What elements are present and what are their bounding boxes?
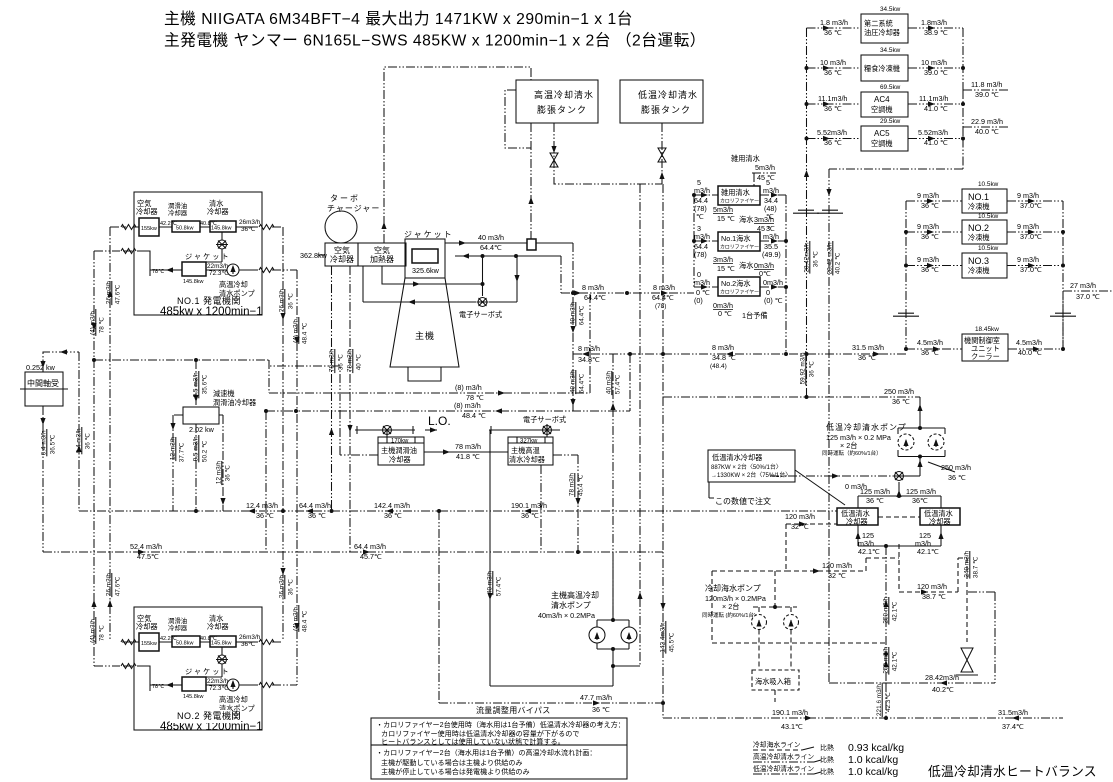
svg-text:m3/h: m3/h — [694, 278, 710, 287]
svg-text:32 ℃: 32 ℃ — [791, 522, 809, 531]
svg-text:15 ℃: 15 ℃ — [717, 214, 735, 223]
svg-text:31.5 m3/h: 31.5 m3/h — [852, 343, 884, 352]
svg-text:主機が駆動している場合は主機より供給のみ: 主機が駆動している場合は主機より供給のみ — [381, 758, 523, 767]
svg-text:250 m3/h: 250 m3/h — [941, 463, 971, 472]
svg-text:29.5kw: 29.5kw — [880, 118, 901, 125]
svg-text:中間軸受: 中間軸受 — [27, 378, 59, 388]
svg-text:清水ポンプ: 清水ポンプ — [551, 600, 591, 610]
svg-text:325.6kw: 325.6kw — [412, 266, 440, 275]
SW 240 riser — [958, 558, 967, 642]
bearing drain — [42, 406, 44, 552]
svg-text:NO.1: NO.1 — [968, 192, 989, 202]
left riser x110 — [110, 227, 120, 641]
svg-text:36 ℃: 36 ℃ — [288, 293, 295, 309]
svg-text:0m3/h: 0m3/h — [763, 278, 783, 287]
svg-text:250 m3/h: 250 m3/h — [884, 387, 914, 396]
SW overboard strainer — [956, 648, 978, 675]
HT tank drain line — [554, 123, 662, 184]
svg-text:11.8 m3/h: 11.8 m3/h — [971, 80, 1002, 89]
svg-text:64.4℃: 64.4℃ — [652, 293, 674, 302]
svg-text:冷却器: 冷却器 — [846, 517, 868, 526]
svg-text:39.0 ℃: 39.0 ℃ — [924, 68, 948, 77]
svg-text:36 ℃: 36 ℃ — [813, 251, 820, 267]
svg-text:NO.3: NO.3 — [968, 256, 989, 266]
svg-text:36 ℃: 36 ℃ — [921, 348, 939, 357]
svg-text:m3/h: m3/h — [763, 232, 779, 241]
makeup riser x640 — [639, 184, 641, 666]
svg-text:クーラー: クーラー — [971, 352, 1000, 361]
svg-text:45.4 ℃: 45.4 ℃ — [578, 475, 585, 496]
svg-text:海水: 海水 — [739, 215, 753, 224]
svg-text:カロリファイヤー使用時は低温清水冷却器の容量が下がるので: カロリファイヤー使用時は低温清水冷却器の容量が下がるので — [381, 729, 579, 738]
calorifier out stubs — [760, 195, 786, 287]
misc FW calorifier box — [718, 186, 760, 205]
svg-text:190.1 m3/h: 190.1 m3/h — [511, 501, 547, 510]
svg-text:36 ℃: 36 ℃ — [225, 465, 232, 481]
HT cooler bottom drain — [540, 465, 542, 552]
air heater box — [358, 243, 406, 266]
svg-text:潤滑油冷却器: 潤滑油冷却器 — [213, 398, 256, 407]
svg-text:0.93 kcal/kg: 0.93 kcal/kg — [848, 742, 904, 754]
generator engine NO.1 — [121, 192, 274, 318]
svg-text:膨張タンク: 膨張タンク — [641, 104, 691, 115]
LT cooler box B — [920, 508, 960, 525]
svg-text:4.5m3/h: 4.5m3/h — [1016, 338, 1042, 347]
svg-text:38.9 ℃: 38.9 ℃ — [924, 28, 948, 37]
refrigerator feed riser — [905, 201, 907, 349]
crossing ticks misc — [793, 210, 819, 213]
svg-text:8 m3/h: 8 m3/h — [653, 283, 675, 292]
crossing ticks refrigerant — [893, 313, 919, 316]
svg-text:12.4 m3/h: 12.4 m3/h — [246, 501, 278, 510]
svg-text:38.7 ℃: 38.7 ℃ — [973, 557, 980, 578]
HT tank feed line up — [530, 123, 532, 243]
jacket return line — [455, 255, 561, 257]
svg-text:170kw: 170kw — [391, 439, 409, 445]
svg-text:L.O.: L.O. — [428, 414, 451, 428]
svg-text:電子サーボ式: 電子サーボ式 — [459, 310, 502, 319]
NO1 right risers — [272, 227, 283, 642]
svg-text:9 m3/h: 9 m3/h — [1017, 255, 1039, 264]
svg-text:電子サーボ式: 電子サーボ式 — [523, 415, 566, 424]
svg-text:41.0 ℃: 41.0 ℃ — [924, 104, 948, 113]
riser 142.4 — [662, 397, 664, 703]
svg-text:m3/h: m3/h — [763, 186, 779, 195]
svg-text:64.4 m3/h: 64.4 m3/h — [299, 501, 331, 510]
svg-text:5m3/h: 5m3/h — [713, 205, 733, 214]
bearing feed riser — [78, 352, 80, 511]
svg-text:1.0 kcal/kg: 1.0 kcal/kg — [848, 766, 898, 778]
svg-text:47.6℃: 47.6℃ — [115, 285, 122, 305]
svg-text:3m3/h: 3m3/h — [713, 255, 733, 264]
221.6 riser — [885, 683, 887, 718]
svg-text:比熱: 比熱 — [820, 755, 834, 764]
SW pump discharge — [712, 571, 886, 643]
NO2 entry stubs — [94, 642, 134, 666]
svg-text:雑用清水: 雑用清水 — [731, 154, 760, 163]
horizontal y360 — [94, 359, 269, 361]
svg-text:m3/h: m3/h — [694, 232, 710, 241]
bypass line — [439, 511, 666, 703]
junction box on tank riser — [527, 239, 536, 250]
svg-text:主機 NIIGATA 6M34BFT−4 最大出力 147: 主機 NIIGATA 6M34BFT−4 最大出力 1471KW x 290mi… — [164, 10, 633, 28]
svg-text:カロリファイヤー: カロリファイヤー — [720, 199, 759, 205]
svg-text:40.2℃: 40.2℃ — [932, 685, 954, 694]
svg-text:78 ℃: 78 ℃ — [99, 625, 106, 641]
svg-text:9 m3/h: 9 m3/h — [1017, 191, 1039, 200]
svg-text:(8) m3/h: (8) m3/h — [455, 383, 482, 392]
svg-text:・カロリファイヤー2台使用時（海水用は1台予備）低温清水冷却: ・カロリファイヤー2台使用時（海水用は1台予備）低温清水冷却器の考え方： — [376, 720, 625, 729]
svg-text:190.1 m3/h: 190.1 m3/h — [772, 708, 808, 717]
svg-text:57.4℃: 57.4℃ — [615, 375, 622, 395]
svg-text:この数値で注文: この数値で注文 — [715, 496, 771, 506]
provision ref box — [861, 55, 908, 81]
hydraulic cooler box — [861, 14, 908, 43]
generator engine NO.2 — [121, 607, 274, 733]
engine lube oil lines lower — [269, 293, 590, 393]
svg-text:冷却海水ライン: 冷却海水ライン — [753, 740, 801, 749]
svg-text:2.02 kw: 2.02 kw — [189, 425, 215, 434]
svg-text:海水吸入箱: 海水吸入箱 — [755, 677, 791, 686]
svg-text:No.1海水: No.1海水 — [721, 234, 751, 243]
svg-text:48.4 ℃: 48.4 ℃ — [302, 611, 309, 632]
svg-text:主機潤滑油: 主機潤滑油 — [381, 446, 417, 455]
svg-text:10 m3/h: 10 m3/h — [820, 58, 846, 67]
svg-text:36 ℃: 36 ℃ — [308, 511, 326, 520]
svg-text:(78): (78) — [655, 303, 666, 310]
svg-text:39.0 ℃: 39.0 ℃ — [975, 90, 999, 99]
svg-text:冷凍機: 冷凍機 — [968, 266, 990, 275]
svg-text:37.0℃: 37.0℃ — [1020, 265, 1042, 274]
11.8 stub — [963, 89, 1010, 91]
svg-text:40.0 ℃: 40.0 ℃ — [1018, 348, 1042, 357]
svg-text:64.4℃: 64.4℃ — [579, 306, 586, 326]
LT cooler suction line — [770, 475, 893, 477]
svg-text:8 m3/h: 8 m3/h — [582, 283, 604, 292]
svg-text:142.4 m3/h: 142.4 m3/h — [374, 501, 410, 510]
svg-text:0℃: 0℃ — [759, 269, 771, 278]
svg-text:主発電機 ヤンマー 6N165L−SWS 485KW x: 主発電機 ヤンマー 6N165L−SWS 485KW x 1200min−1 x… — [164, 32, 706, 50]
svg-text:11.1m3/h: 11.1m3/h — [818, 94, 847, 103]
No2 SW calorifier box — [718, 277, 760, 296]
svg-text:36 ℃: 36 ℃ — [256, 511, 274, 520]
svg-text:減速機: 減速機 — [213, 389, 235, 398]
supply riser 40/64.4 down — [572, 243, 574, 411]
svg-text:125 m3/h: 125 m3/h — [906, 487, 936, 496]
svg-text:5m3/h: 5m3/h — [755, 163, 775, 172]
svg-text:120 m3/h: 120 m3/h — [785, 512, 815, 521]
LT tank drain line — [661, 123, 663, 184]
svg-text:主機: 主機 — [415, 330, 435, 341]
svg-text:36 ℃: 36 ℃ — [824, 104, 842, 113]
LT cooler box A — [837, 508, 878, 525]
svg-text:34.5kw: 34.5kw — [880, 47, 901, 54]
svg-text:同時運転 (約60%/1台): 同時運転 (約60%/1台) — [702, 611, 756, 619]
riser 28.42 down — [829, 139, 963, 684]
svg-text:40m3/h × 0.2MPa: 40m3/h × 0.2MPa — [538, 611, 595, 620]
svg-text:カロリファイヤー: カロリファイヤー — [720, 245, 759, 251]
svg-text:9 m3/h: 9 m3/h — [917, 191, 939, 200]
ME HT cooler box — [508, 437, 553, 465]
turbo risers — [331, 266, 333, 511]
svg-text:膨張タンク: 膨張タンク — [537, 104, 587, 115]
vent line heater to tank top — [384, 67, 531, 243]
svg-text:10 m3/h: 10 m3/h — [921, 58, 947, 67]
svg-text:(78): (78) — [694, 250, 707, 259]
svg-text:47.5℃: 47.5℃ — [137, 552, 159, 561]
svg-text:11.1m3/h: 11.1m3/h — [919, 94, 948, 103]
svg-text:18.45kw: 18.45kw — [975, 326, 999, 333]
unit cooler stubs — [906, 297, 1063, 349]
SW pumps — [753, 571, 797, 670]
NO.2 label patch — [170, 710, 230, 723]
pump loop bottom — [490, 430, 613, 686]
calorifier out line 8m3 — [663, 353, 906, 355]
svg-text:36 ℃: 36 ℃ — [866, 496, 884, 505]
svg-text:清水冷却器: 清水冷却器 — [509, 455, 545, 464]
svg-text:36 ℃: 36 ℃ — [809, 361, 816, 377]
right riser down — [967, 592, 995, 683]
svg-text:36 ℃: 36 ℃ — [824, 138, 842, 147]
svg-text:→1330KW × 2台〈75%/1台〉: →1330KW × 2台〈75%/1台〉 — [711, 471, 791, 479]
svg-text:36 ℃: 36 ℃ — [85, 433, 92, 449]
svg-text:27 m3/h: 27 m3/h — [1070, 281, 1096, 290]
svg-text:9 m3/h: 9 m3/h — [917, 255, 939, 264]
svg-text:冷却器: 冷却器 — [929, 517, 951, 526]
svg-text:1台予備: 1台予備 — [742, 311, 768, 320]
svg-text:比熱: 比熱 — [820, 767, 834, 776]
svg-text:36 ℃: 36 ℃ — [521, 511, 539, 520]
svg-text:42.1℃: 42.1℃ — [858, 547, 880, 556]
air cooler box — [325, 243, 358, 266]
svg-text:5.52m3/h: 5.52m3/h — [918, 128, 948, 137]
svg-text:× 2台: × 2台 — [722, 602, 739, 611]
svg-text:45.7℃: 45.7℃ — [360, 552, 382, 561]
tank inner bracket — [505, 90, 531, 148]
collect riser right top — [962, 28, 964, 90]
AC4 box — [861, 92, 908, 117]
svg-text:125 m3/h: 125 m3/h — [860, 487, 890, 496]
svg-text:低温冷却清水ヒートバランス: 低温冷却清水ヒートバランス — [928, 764, 1097, 779]
svg-text:低温冷却清水: 低温冷却清水 — [638, 89, 698, 100]
svg-text:36 ℃: 36 ℃ — [592, 705, 610, 714]
svg-text:0 ℃: 0 ℃ — [718, 309, 732, 318]
svg-text:48.4 ℃: 48.4 ℃ — [302, 323, 309, 344]
svg-text:冷凍機: 冷凍機 — [968, 233, 990, 242]
consumer feed stubs — [807, 28, 862, 139]
svg-text:78 m3/h: 78 m3/h — [455, 442, 481, 451]
svg-text:37.4℃: 37.4℃ — [1002, 722, 1024, 731]
heater branch line — [382, 256, 483, 296]
ME LO cooler valve line — [355, 426, 415, 434]
servo valve main — [477, 298, 489, 307]
SW line cooler B — [866, 544, 958, 592]
turbo charger circle — [325, 211, 357, 243]
svg-text:40 ℃: 40 ℃ — [356, 354, 363, 370]
svg-text:5.52m3/h: 5.52m3/h — [817, 128, 847, 137]
svg-text:36 ℃: 36 ℃ — [921, 265, 939, 274]
svg-text:43.1℃: 43.1℃ — [781, 722, 803, 731]
svg-text:冷凍機: 冷凍機 — [968, 202, 990, 211]
svg-text:冷却器: 冷却器 — [330, 254, 354, 264]
8m3 34.8 branch — [573, 354, 663, 411]
svg-text:40 m3/h: 40 m3/h — [478, 233, 504, 242]
svg-text:1.0 kcal/kg: 1.0 kcal/kg — [848, 754, 898, 766]
notes box 1 — [371, 718, 627, 745]
ME HT pumps — [597, 560, 629, 686]
svg-text:36℃: 36℃ — [912, 496, 928, 505]
notes box 2 — [371, 745, 627, 779]
svg-text:第二系統: 第二系統 — [864, 19, 893, 28]
svg-text:8 m3/h: 8 m3/h — [712, 343, 734, 352]
svg-text:10.5kw: 10.5kw — [978, 181, 999, 188]
svg-text:36 ℃: 36 ℃ — [288, 579, 295, 595]
svg-text:3m3/h: 3m3/h — [754, 215, 774, 224]
svg-text:120 m3/h: 120 m3/h — [822, 561, 852, 570]
gear LO cooler box — [183, 407, 219, 424]
svg-text:糧食冷凍機: 糧食冷凍機 — [864, 64, 900, 73]
svg-text:m3/h: m3/h — [694, 186, 710, 195]
svg-text:45 ℃: 45 ℃ — [757, 224, 775, 233]
LT expansion tank — [620, 80, 703, 123]
svg-text:海水: 海水 — [739, 261, 753, 270]
HT cooler valve — [489, 424, 560, 437]
svg-text:64.4℃: 64.4℃ — [579, 374, 586, 394]
SW return riser 250/42.1 — [885, 546, 887, 683]
left riser x94 — [94, 251, 134, 666]
svg-text:9 m3/h: 9 m3/h — [917, 222, 939, 231]
horizontal y511 main LT line — [79, 510, 837, 512]
27 m3/h stub — [1063, 290, 1113, 292]
svg-text:78 ℃: 78 ℃ — [99, 317, 106, 333]
SW riser left — [786, 524, 866, 571]
AC5 box — [861, 126, 908, 151]
svg-text:カロリファイヤー: カロリファイヤー — [720, 290, 759, 296]
svg-text:34.8 ℃: 34.8 ℃ — [712, 353, 736, 362]
svg-text:37.0℃: 37.0℃ — [1020, 232, 1042, 241]
svg-text:40.0 ℃: 40.0 ℃ — [975, 127, 999, 136]
svg-text:10.5kw: 10.5kw — [978, 245, 999, 252]
svg-text:空気: 空気 — [334, 245, 350, 255]
svg-text:47.7 m3/h: 47.7 m3/h — [580, 693, 612, 702]
svg-text:AC5: AC5 — [874, 129, 890, 138]
svg-text:52.4 m3/h: 52.4 m3/h — [130, 542, 162, 551]
svg-text:41.8 ℃: 41.8 ℃ — [456, 452, 480, 461]
svg-text:加熱器: 加熱器 — [370, 254, 394, 264]
unit cooler box — [962, 334, 1008, 361]
svg-text:同時運転（約60%/1台）: 同時運転（約60%/1台） — [822, 449, 882, 457]
svg-text:空調機: 空調機 — [871, 139, 893, 148]
pump discharge riser x613 (40/57.4 up) — [612, 354, 614, 620]
LT cooler info box — [708, 450, 795, 482]
svg-text:主機が停止している場合は発電機より供給のみ: 主機が停止している場合は発電機より供給のみ — [381, 767, 530, 776]
svg-text:(49.9): (49.9) — [762, 250, 781, 259]
gear LO cooler feed — [195, 360, 197, 407]
28.42 return connect — [829, 682, 995, 684]
svg-text:40.2 ℃: 40.2 ℃ — [835, 253, 842, 274]
jacket out 40m3 line — [445, 242, 573, 244]
svg-text:36 ℃: 36 ℃ — [384, 511, 402, 520]
svg-text:41.0 ℃: 41.0 ℃ — [924, 138, 948, 147]
svg-text:327kw: 327kw — [520, 439, 538, 445]
svg-text:69.5kw: 69.5kw — [880, 84, 901, 91]
svg-text:主機高温冷却: 主機高温冷却 — [551, 590, 599, 600]
svg-text:125 m3/h × 0.2 MPa: 125 m3/h × 0.2 MPa — [826, 433, 891, 442]
svg-text:高温冷却清水ライン: 高温冷却清水ライン — [753, 752, 814, 761]
svg-text:36 ℃: 36 ℃ — [921, 201, 939, 210]
main engine trapezoid — [390, 278, 459, 381]
svg-text:34.5kw: 34.5kw — [880, 6, 901, 13]
svg-text:42.1℃: 42.1℃ — [892, 602, 899, 622]
svg-text:31.5m3/h: 31.5m3/h — [998, 708, 1028, 717]
consumer out stubs — [908, 28, 963, 139]
svg-text:9 m3/h: 9 m3/h — [1017, 222, 1039, 231]
svg-text:47.6℃: 47.6℃ — [115, 577, 122, 597]
250 out label diagonal — [928, 462, 955, 472]
8m3 64.4 branch — [561, 256, 694, 293]
SW feed to cooler A — [786, 517, 920, 524]
svg-text:64.4 m3/h: 64.4 m3/h — [354, 542, 386, 551]
svg-text:38.7 ℃: 38.7 ℃ — [922, 592, 946, 601]
NO3 refrigerator — [962, 253, 1007, 278]
gear LO cooler pipes — [173, 415, 223, 511]
svg-text:4.5m3/h: 4.5m3/h — [917, 338, 943, 347]
svg-text:64.4℃: 64.4℃ — [480, 243, 502, 252]
svg-text:(8) m3/h: (8) m3/h — [454, 401, 481, 410]
svg-text:35.6℃: 35.6℃ — [202, 375, 209, 395]
svg-text:(0): (0) — [694, 296, 703, 305]
svg-text:887KW × 2台〈50%/1台〉: 887KW × 2台〈50%/1台〉 — [711, 463, 782, 471]
svg-text:1.8m3/h: 1.8m3/h — [921, 18, 947, 27]
svg-text:48.4 ℃: 48.4 ℃ — [462, 411, 486, 420]
svg-text:34.8℃: 34.8℃ — [578, 355, 600, 364]
svg-text:32 ℃: 32 ℃ — [828, 571, 846, 580]
svg-text:NO.2 発電機関: NO.2 発電機関 — [177, 710, 241, 721]
svg-text:0.252 kw: 0.252 kw — [26, 363, 56, 372]
svg-text:No.2海水: No.2海水 — [721, 279, 751, 288]
svg-text:(48.4): (48.4) — [710, 363, 727, 370]
ME LO cooler box — [378, 437, 424, 465]
svg-text:45.5℃: 45.5℃ — [669, 633, 676, 653]
svg-text:比熱: 比熱 — [820, 743, 834, 752]
svg-text:主機高温: 主機高温 — [511, 446, 540, 455]
svg-text:低温冷却清水ポンプ: 低温冷却清水ポンプ — [826, 422, 907, 432]
svg-text:8 m3/h: 8 m3/h — [578, 344, 600, 353]
svg-text:64.4℃: 64.4℃ — [584, 293, 606, 302]
horizontal y552 — [43, 551, 663, 553]
svg-text:37.0℃: 37.0℃ — [1020, 201, 1042, 210]
refrigerator out stubs — [1007, 201, 1063, 266]
ME LO cooler left pipe — [269, 360, 378, 455]
sea suction box — [752, 670, 799, 690]
svg-text:57.4℃: 57.4℃ — [496, 577, 503, 597]
svg-text:1.8 m3/h: 1.8 m3/h — [820, 18, 848, 27]
feed riser right top — [806, 28, 808, 397]
svg-text:36 ℃: 36 ℃ — [338, 354, 345, 370]
svg-text:36 ℃: 36 ℃ — [892, 397, 910, 406]
svg-text:36.5℃: 36.5℃ — [50, 435, 57, 455]
No1 SW calorifier box — [718, 232, 760, 251]
svg-text:36 ℃: 36 ℃ — [948, 473, 966, 482]
svg-text:低温清水冷却器: 低温清水冷却器 — [712, 453, 762, 462]
svg-text:36 ℃: 36 ℃ — [858, 353, 876, 362]
svg-text:冷却器: 冷却器 — [389, 455, 411, 464]
HT expansion tank — [516, 80, 598, 123]
LT pump header 250 — [663, 396, 920, 398]
svg-text:NO.2: NO.2 — [968, 223, 989, 233]
svg-text:22.9 m3/h: 22.9 m3/h — [971, 117, 1003, 126]
svg-text:37.7℃: 37.7℃ — [179, 443, 186, 463]
